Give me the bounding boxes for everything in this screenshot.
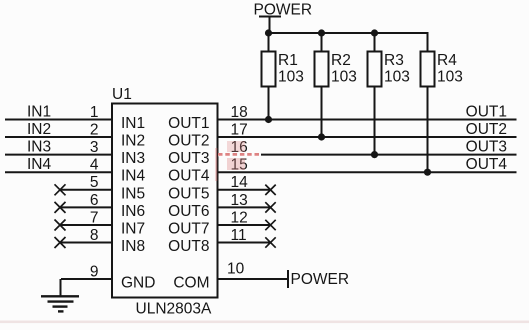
wire pin 11 no-connect X — [218, 227, 276, 248]
svg-text:IN1: IN1 — [121, 115, 145, 132]
svg-text:4: 4 — [90, 157, 99, 174]
wire OUT2 (pin 17) — [218, 121, 517, 138]
svg-text:POWER: POWER — [291, 271, 350, 288]
svg-text:OUT8: OUT8 — [168, 238, 209, 255]
svg-text:8: 8 — [90, 227, 99, 244]
power symbol POWER (top rail) — [254, 2, 313, 34]
node OUT2 junction — [318, 133, 325, 140]
svg-text:18: 18 — [231, 104, 248, 121]
svg-text:103: 103 — [384, 68, 410, 85]
svg-text:OUT4: OUT4 — [168, 168, 210, 185]
wire pin 13 no-connect X — [218, 192, 276, 213]
svg-text:OUT2: OUT2 — [466, 121, 507, 138]
svg-text:2: 2 — [90, 121, 99, 138]
svg-text:R3: R3 — [384, 52, 404, 69]
node OUT4 junction — [424, 169, 431, 176]
svg-text:IN3: IN3 — [121, 150, 145, 167]
svg-text:COM: COM — [173, 275, 209, 292]
svg-text:103: 103 — [278, 68, 304, 85]
svg-text:OUT3: OUT3 — [168, 150, 209, 167]
node rail junction 3 — [371, 29, 378, 36]
svg-text:R4: R4 — [437, 52, 457, 69]
svg-text:IN4: IN4 — [121, 168, 146, 185]
wire OUT4 (pin 15) — [218, 156, 517, 173]
wire IN3 (pin 3) — [5, 139, 112, 156]
ground — [41, 296, 79, 311]
svg-text:6: 6 — [90, 192, 99, 209]
watermark bottom band — [0, 321, 529, 324]
svg-text:12: 12 — [231, 209, 248, 226]
resistor R1 value 103 — [262, 33, 304, 120]
wire OUT1 (pin 18) — [218, 104, 517, 121]
svg-text:IN5: IN5 — [121, 185, 145, 202]
svg-text:3: 3 — [90, 139, 99, 156]
wire IN4 (pin 4) — [5, 156, 112, 173]
wire pin 10 COM supply — [218, 261, 288, 280]
svg-text:OUT5: OUT5 — [168, 185, 209, 202]
wire OUT3 (pin 16) — [218, 139, 517, 156]
svg-text:14: 14 — [231, 174, 249, 191]
wire pin 6 no-connect X — [55, 192, 113, 213]
svg-text:IN7: IN7 — [121, 221, 145, 238]
node OUT3 junction — [371, 151, 378, 158]
svg-text:11: 11 — [231, 227, 247, 244]
svg-text:13: 13 — [231, 192, 248, 209]
svg-text:IN2: IN2 — [27, 121, 51, 138]
resistor R3 value 103 — [368, 33, 410, 155]
svg-text:17: 17 — [231, 121, 248, 138]
wire pin 14 no-connect X — [218, 174, 276, 195]
svg-text:OUT2: OUT2 — [168, 133, 209, 150]
svg-text:R1: R1 — [278, 52, 298, 69]
svg-text:ULN2803A: ULN2803A — [136, 301, 212, 318]
svg-text:5: 5 — [90, 174, 99, 191]
wire pin 12 no-connect X — [218, 209, 276, 230]
resistor R4 value 103 — [421, 33, 463, 172]
svg-text:U1: U1 — [112, 86, 132, 103]
wire pin 8 no-connect X — [55, 227, 113, 248]
svg-text:103: 103 — [437, 68, 463, 85]
svg-text:OUT7: OUT7 — [168, 221, 209, 238]
svg-text:IN8: IN8 — [121, 238, 145, 255]
svg-text:1: 1 — [90, 104, 99, 121]
svg-text:OUT4: OUT4 — [466, 156, 508, 173]
wire IN2 (pin 2) — [5, 121, 112, 138]
svg-text:R2: R2 — [331, 52, 351, 69]
svg-text:9: 9 — [90, 263, 99, 280]
svg-text:IN6: IN6 — [121, 203, 145, 220]
svg-text:IN2: IN2 — [121, 133, 145, 150]
wire power rail — [268, 32, 429, 34]
watermark red marks — [216, 141, 261, 181]
wire pin 9 to ground — [61, 263, 113, 296]
wire IN1 (pin 1) — [5, 104, 112, 121]
svg-text:OUT1: OUT1 — [466, 104, 507, 121]
svg-text:OUT1: OUT1 — [168, 115, 209, 132]
wire pin 7 no-connect X — [55, 209, 113, 230]
node OUT1 junction — [265, 116, 272, 123]
wire pin 5 no-connect X — [55, 174, 113, 195]
svg-text:GND: GND — [121, 275, 155, 292]
svg-text:10: 10 — [227, 261, 245, 278]
node rail junction 1 — [265, 29, 272, 36]
resistor R2 value 103 — [315, 33, 357, 137]
power symbol POWER (pin 10) — [288, 270, 349, 288]
svg-text:IN4: IN4 — [27, 156, 52, 173]
svg-text:103: 103 — [331, 68, 357, 85]
node rail junction 2 — [318, 29, 325, 36]
IC U1 ULN2803A — [112, 86, 218, 318]
svg-text:7: 7 — [90, 209, 99, 226]
svg-text:IN3: IN3 — [27, 139, 51, 156]
svg-text:OUT3: OUT3 — [466, 139, 507, 156]
svg-text:IN1: IN1 — [27, 104, 51, 121]
svg-text:OUT6: OUT6 — [168, 203, 209, 220]
